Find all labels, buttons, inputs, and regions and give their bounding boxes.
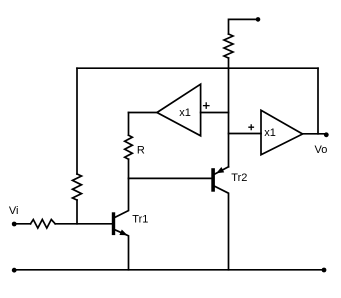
- svg-text:x1: x1: [179, 107, 191, 119]
- svg-text:Vi: Vi: [9, 205, 19, 217]
- svg-text:x1: x1: [264, 127, 276, 139]
- svg-text:Tr1: Tr1: [132, 213, 148, 225]
- svg-text:Vo: Vo: [315, 144, 328, 156]
- svg-text:R: R: [137, 144, 145, 156]
- svg-text:Tr2: Tr2: [231, 172, 247, 184]
